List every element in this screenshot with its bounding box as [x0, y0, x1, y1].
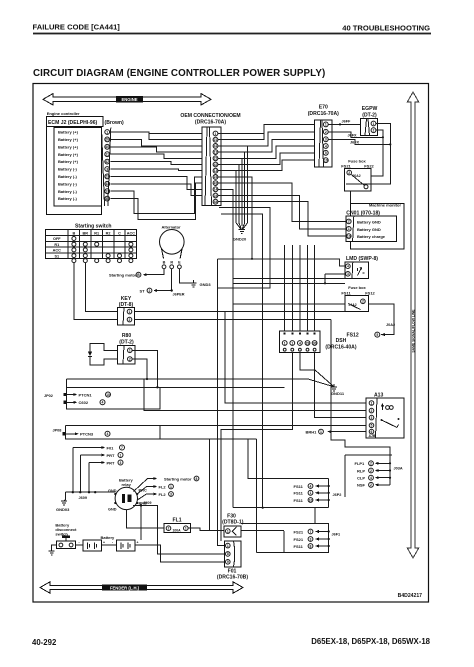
svg-text:FS21: FS21 — [341, 164, 351, 169]
svg-text:24: 24 — [214, 194, 218, 198]
svg-text:ENGINE: ENGINE — [121, 97, 137, 102]
wire chain to FS11/FS21 groups — [233, 508, 329, 524]
svg-text:2: 2 — [370, 469, 372, 473]
svg-text:relay: relay — [122, 482, 132, 487]
DSH feed verticals — [285, 245, 315, 331]
svg-text:8: 8 — [310, 544, 312, 548]
wire FL1 to F30 — [188, 528, 224, 531]
svg-text:FS11: FS11 — [294, 484, 304, 489]
svg-text:FS21: FS21 — [294, 529, 304, 534]
wire ECM pin2 to OEM — [111, 139, 203, 146]
wire ECM pin4 to OEM — [111, 154, 203, 158]
ground GND20 bundle wires — [218, 146, 247, 242]
svg-text:J6FX: J6FX — [348, 133, 358, 137]
wire switch to battery 1 — [75, 544, 83, 546]
svg-text:(DRC16-70A): (DRC16-70A) — [195, 120, 226, 126]
svg-text:13: 13 — [214, 169, 218, 173]
svg-text:2: 2 — [370, 462, 372, 466]
wire ECM pin1 to OEM — [111, 132, 203, 140]
svg-text:+: + — [137, 541, 139, 545]
svg-text:Battery (-): Battery (-) — [58, 189, 78, 194]
svg-text:Battery (+): Battery (+) — [58, 130, 79, 135]
wire OEM to E70 pin4 — [218, 146, 315, 158]
svg-text:2: 2 — [348, 220, 350, 224]
svg-text:PTCN3: PTCN3 — [80, 432, 94, 437]
svg-text:4: 4 — [107, 432, 109, 436]
svg-text:GND03: GND03 — [56, 507, 70, 512]
svg-text:22: 22 — [214, 157, 218, 161]
svg-text:PRT: PRT — [107, 453, 116, 458]
svg-text:23: 23 — [214, 175, 218, 179]
svg-text:C: C — [118, 231, 121, 235]
ground GND11 — [67, 353, 345, 396]
svg-text:GND11: GND11 — [331, 391, 345, 396]
wire ECM pin10 to OEM — [111, 183, 203, 220]
machine monitor box — [351, 203, 404, 249]
svg-text:J009: J009 — [143, 501, 151, 505]
svg-text:2: 2 — [348, 171, 350, 175]
svg-text:ACC: ACC — [127, 231, 135, 235]
ground GND20 — [239, 230, 245, 234]
svg-text:2: 2 — [362, 300, 364, 304]
svg-text:4: 4 — [310, 484, 312, 488]
wire ECM pin7 to OEM — [111, 176, 203, 189]
svg-text:J6PER: J6PER — [173, 292, 185, 296]
wire alternator B to starting motor (B) — [109, 269, 164, 278]
svg-text:8: 8 — [227, 552, 229, 556]
svg-text:ACC: ACC — [53, 249, 61, 253]
svg-text:1: 1 — [129, 349, 131, 353]
svg-text:3: 3 — [106, 167, 108, 171]
wire OEM to E70 pin2 — [218, 132, 315, 146]
svg-text:33: 33 — [105, 197, 109, 201]
svg-text:R: R — [170, 261, 173, 265]
svg-text:1: 1 — [170, 485, 172, 489]
svg-text:1: 1 — [129, 310, 131, 314]
svg-text:44: 44 — [214, 200, 218, 204]
svg-text:DSH: DSH — [336, 338, 347, 344]
svg-text:23: 23 — [105, 175, 109, 179]
wire relay to FL1 — [126, 510, 164, 529]
svg-text:F30: F30 — [227, 513, 236, 519]
connector KEY — [118, 296, 138, 325]
svg-text:41: 41 — [214, 144, 218, 148]
wire from switch-B node down to FLP1 bus — [331, 320, 390, 485]
E70 connector — [308, 105, 339, 168]
wire EGPW pin2 to fuse box — [371, 130, 383, 176]
fuse box FS11/FS12 — [341, 285, 375, 311]
svg-text:FLP1: FLP1 — [355, 461, 366, 466]
svg-text:E70: E70 — [319, 105, 328, 111]
wire E70 pin1 to EGPW pin1, node J6FF — [328, 120, 360, 126]
svg-text:JP02: JP02 — [44, 394, 53, 398]
wire ECM pin3 to OEM — [111, 147, 203, 152]
long wire down to F01 pin1 — [217, 259, 224, 546]
svg-text:OEM CONNECTION/OEM: OEM CONNECTION/OEM — [180, 113, 240, 119]
svg-text:J0A2: J0A2 — [386, 323, 395, 327]
svg-text:C602: C602 — [79, 400, 89, 405]
svg-text:2: 2 — [371, 409, 373, 413]
wires ECM to OEM — [111, 132, 203, 220]
svg-text:SAME SIGNAL/FLOW LINE: SAME SIGNAL/FLOW LINE — [412, 309, 416, 353]
svg-text:PRT: PRT — [107, 460, 116, 465]
svg-text:GND3: GND3 — [200, 282, 212, 287]
svg-text:FS12: FS12 — [365, 291, 375, 296]
svg-text:2: 2 — [129, 318, 131, 322]
svg-text:3: 3 — [120, 461, 122, 465]
svg-text:Alternator: Alternator — [162, 225, 182, 230]
harness arrow ENGINE — [43, 94, 211, 105]
svg-text:FS11: FS11 — [294, 498, 304, 503]
long wire from JP08 box to FS11 group riser — [160, 439, 257, 553]
svg-text:FS22: FS22 — [364, 164, 374, 169]
svg-text:FL1: FL1 — [172, 518, 181, 524]
svg-text:2: 2 — [168, 527, 170, 531]
svg-text:(DRC16-70B): (DRC16-70B) — [217, 575, 248, 581]
svg-text:9: 9 — [227, 560, 229, 564]
svg-text:AJB: AJB — [369, 434, 376, 438]
svg-text:40 TROUBLESHOOTING: 40 TROUBLESHOOTING — [342, 24, 430, 33]
connector JP08 group — [53, 425, 161, 439]
alternator — [160, 225, 185, 269]
svg-text:S1: S1 — [54, 254, 59, 258]
svg-text:21: 21 — [214, 138, 218, 142]
svg-text:GND: GND — [108, 489, 117, 493]
svg-text:14: 14 — [214, 188, 218, 192]
svg-text:EGPW: EGPW — [362, 106, 378, 112]
svg-text:42: 42 — [105, 160, 109, 164]
wire OEM to E70 pin1 — [218, 124, 315, 139]
svg-text:2: 2 — [325, 130, 327, 134]
svg-text:(DRC16-70A): (DRC16-70A) — [308, 111, 339, 117]
svg-text:PTCN1: PTCN1 — [79, 392, 93, 397]
svg-text:4: 4 — [102, 401, 104, 405]
svg-text:2: 2 — [370, 483, 372, 487]
wire OEM pin1 stub — [149, 133, 202, 135]
svg-text:GND: GND — [108, 508, 117, 512]
svg-text:CLP: CLP — [357, 476, 365, 481]
battery relay — [108, 478, 147, 512]
wire E70 pin2, node J6FX — [328, 132, 384, 139]
svg-text:B: B — [73, 231, 76, 235]
wire fuse box down to machine monitor — [350, 191, 352, 204]
svg-text:-: - — [79, 541, 80, 545]
svg-text:(DT-2): (DT-2) — [119, 339, 134, 345]
svg-text:FAILURE CODE [CA441]: FAILURE CODE [CA441] — [33, 23, 121, 32]
ECM connector strip pins — [102, 128, 105, 207]
svg-text:43: 43 — [105, 182, 109, 186]
svg-text:FL2: FL2 — [159, 484, 167, 489]
svg-text:20: 20 — [105, 138, 109, 142]
svg-text:4: 4 — [299, 341, 301, 345]
svg-text:1: 1 — [325, 123, 327, 127]
battery disconnect switch — [49, 523, 77, 555]
battery 2 — [101, 535, 139, 551]
battery 1 — [79, 540, 106, 551]
connector CN01 — [346, 211, 397, 242]
svg-text:42: 42 — [214, 163, 218, 167]
fusible link FL1 — [164, 518, 191, 533]
F01/PRT arrows — [73, 445, 125, 465]
svg-text:7: 7 — [121, 446, 123, 450]
svg-text:E: E — [178, 261, 181, 265]
wire alternator E to ground GND3 — [179, 269, 211, 287]
wire fuse FS12 to node J0A2 and FS12 pin5 arrow — [347, 304, 396, 339]
svg-text:13: 13 — [105, 190, 109, 194]
svg-text:FENDER (L.H.): FENDER (L.H.) — [110, 585, 140, 590]
svg-text:100A: 100A — [173, 529, 182, 533]
svg-text:FS11: FS11 — [341, 291, 351, 296]
wire ECM pin6 to OEM — [111, 169, 203, 171]
wire OEM to node — [218, 133, 264, 135]
svg-text:4: 4 — [347, 265, 349, 269]
wire switch B to KEY pin2 and on to node — [74, 263, 331, 320]
svg-text:1: 1 — [120, 453, 122, 457]
svg-text:11: 11 — [105, 153, 109, 157]
svg-text:Fuse box: Fuse box — [348, 285, 366, 290]
wire F30 right side to FS21 riser — [241, 530, 284, 532]
svg-text:Battery (+): Battery (+) — [58, 152, 79, 157]
svg-text:1: 1 — [215, 132, 217, 136]
connector LMD — [345, 256, 378, 279]
svg-text:5: 5 — [325, 151, 327, 155]
wire ECM pin5 to OEM — [111, 162, 203, 165]
svg-text:12: 12 — [214, 150, 218, 154]
svg-text:2: 2 — [129, 357, 131, 361]
svg-text:OFF: OFF — [53, 237, 61, 241]
svg-text:1: 1 — [185, 527, 187, 531]
svg-text:8: 8 — [196, 477, 198, 481]
wire R80 pin1 to JP02 box — [132, 350, 157, 387]
svg-text:F01: F01 — [107, 445, 115, 450]
svg-text:1: 1 — [227, 544, 229, 548]
svg-text:JP08: JP08 — [53, 428, 62, 432]
svg-text:FL2: FL2 — [159, 492, 167, 497]
FL2 / starting motor arrow group — [134, 476, 199, 500]
svg-text:B4D24217: B4D24217 — [398, 593, 423, 599]
wire battery1 to battery2 — [102, 544, 117, 546]
svg-text:1: 1 — [348, 227, 350, 231]
svg-text:2: 2 — [149, 289, 151, 293]
svg-text:CIRCUIT DIAGRAM (ENGINE CONTRO: CIRCUIT DIAGRAM (ENGINE CONTROLLER POWER… — [33, 68, 325, 79]
svg-text:FS21: FS21 — [294, 537, 304, 542]
FS21 arrow group — [241, 523, 340, 552]
OEM connection connector — [180, 113, 240, 206]
svg-text:3: 3 — [325, 138, 327, 142]
svg-text:1: 1 — [291, 341, 293, 345]
svg-text:LMD (SWP-8): LMD (SWP-8) — [346, 256, 378, 262]
svg-text:J6FX: J6FX — [350, 141, 360, 145]
FS11 arrow group — [248, 439, 341, 508]
connector JP02 group — [44, 387, 285, 409]
connector F01 — [217, 541, 248, 581]
svg-text:(Brown): (Brown) — [105, 120, 125, 126]
svg-text:3: 3 — [310, 537, 312, 541]
svg-text:1: 1 — [106, 130, 108, 134]
svg-text:1: 1 — [310, 491, 312, 495]
wire ECM pin8 to OEM — [111, 184, 203, 196]
svg-text:FS12: FS12 — [347, 333, 359, 339]
svg-text:1: 1 — [227, 529, 229, 533]
svg-text:7: 7 — [310, 530, 312, 534]
svg-text:Battery charge: Battery charge — [357, 234, 386, 239]
fuse box FS21/FS22 — [341, 159, 374, 191]
svg-text:RLP: RLP — [357, 468, 365, 473]
svg-text:Battery (-): Battery (-) — [58, 167, 78, 172]
wire OEM to E70 pin3 — [218, 139, 315, 152]
svg-text:10: 10 — [106, 393, 110, 397]
wire loop rectangle (machine boundary stub) — [217, 259, 344, 288]
svg-text:+: + — [103, 541, 105, 545]
svg-text:ECM J2 (DELPHI-96): ECM J2 (DELPHI-96) — [48, 120, 98, 126]
svg-text:D65EX-18, D65PX-18, D65WX-18: D65EX-18, D65PX-18, D65WX-18 — [311, 637, 430, 646]
relay A13 — [366, 393, 404, 438]
connector DSH — [280, 331, 357, 353]
svg-text:F01: F01 — [228, 568, 237, 574]
svg-text:J03A: J03A — [394, 466, 403, 470]
svg-text:Battery (+): Battery (+) — [58, 159, 79, 164]
svg-text:1: 1 — [320, 430, 322, 434]
svg-text:3: 3 — [170, 492, 172, 496]
svg-text:Battery (-): Battery (-) — [58, 181, 78, 186]
wire BRH1 from A13 pin6 — [306, 429, 367, 434]
connector F30 — [222, 513, 244, 537]
svg-text:FS11: FS11 — [294, 491, 304, 496]
wire relay GND bottom to F01 pin8 — [133, 506, 224, 554]
wire switch BR to KEY pin1 and on to fuse box FS11 — [85, 263, 345, 312]
wire battery2 + to F01 pin9 — [135, 545, 224, 562]
relay R80 with diode — [88, 333, 135, 365]
svg-text:BR: BR — [83, 231, 89, 235]
svg-text:29: 29 — [306, 341, 310, 345]
harness arrow FENDER (L.H.) — [40, 582, 243, 593]
engine controller ECM J2 — [47, 111, 125, 215]
svg-text:1: 1 — [284, 341, 286, 345]
svg-text:Engine controller: Engine controller — [47, 111, 80, 116]
svg-text:10: 10 — [324, 159, 328, 163]
mid horizontal wire to fuse box FS11 — [218, 189, 345, 507]
EGPW connector — [360, 106, 377, 136]
svg-text:4: 4 — [325, 144, 327, 148]
svg-text:Battery (+): Battery (+) — [58, 144, 79, 149]
svg-text:(DT8D-1): (DT8D-1) — [222, 519, 244, 525]
svg-text:Starting switch: Starting switch — [75, 224, 112, 230]
svg-text:R80: R80 — [122, 333, 132, 339]
svg-text:J609: J609 — [79, 496, 87, 500]
wire EGPW pin1 to fuse box — [346, 124, 390, 184]
svg-text:(DT-2): (DT-2) — [362, 112, 377, 118]
wire riser to F30 feed — [209, 439, 211, 531]
wires OEM down to CN01 — [218, 183, 347, 236]
svg-text:Battery (-): Battery (-) — [58, 196, 78, 201]
node J609 bus and ground GND03 — [56, 448, 115, 513]
svg-text:40: 40 — [105, 145, 109, 149]
svg-text:1: 1 — [371, 401, 373, 405]
svg-text:Starting motor: Starting motor — [164, 476, 192, 481]
svg-text:1: 1 — [373, 122, 375, 126]
svg-text:5: 5 — [371, 424, 373, 428]
wire OEM to E70 pin6 — [218, 160, 315, 171]
wires OEM down to LMD — [218, 177, 345, 285]
FLP1/RLP/CLP/NSF arrow group — [345, 455, 403, 497]
wire OEM bottom to long column x=270 — [219, 208, 270, 259]
svg-text:4: 4 — [370, 476, 372, 480]
svg-text:3: 3 — [347, 272, 349, 276]
svg-text:3: 3 — [371, 416, 373, 420]
svg-text:BRH1: BRH1 — [306, 429, 318, 434]
wire battery2 + riser, node J009 — [140, 506, 142, 541]
svg-text:Battery GND: Battery GND — [357, 219, 381, 224]
wire E70 pin3, node J6FX — [328, 139, 391, 145]
svg-text:40-292: 40-292 — [32, 638, 57, 647]
svg-text:ST: ST — [140, 288, 146, 293]
wires to A13 pins — [144, 312, 366, 426]
svg-text:R1: R1 — [54, 243, 59, 247]
diagram frame — [33, 84, 429, 603]
svg-text:30: 30 — [313, 341, 317, 345]
svg-text:10: 10 — [347, 234, 351, 238]
svg-text:R2: R2 — [106, 231, 111, 235]
svg-text:10: 10 — [309, 498, 313, 502]
svg-text:J6P2: J6P2 — [333, 493, 342, 497]
svg-text:R1: R1 — [94, 231, 99, 235]
wire DSH pin2 to F01 riser — [221, 353, 292, 541]
wire ECM pin9 to OEM — [111, 177, 203, 213]
svg-text:Battery: Battery — [101, 535, 116, 540]
wire OEM to E70 pin5 — [218, 153, 315, 165]
svg-text:GND20: GND20 — [233, 237, 247, 242]
svg-text:NSF: NSF — [357, 483, 366, 488]
svg-text:(DRC16-40A): (DRC16-40A) — [325, 345, 356, 351]
svg-text:B: B — [163, 261, 166, 265]
diode D — [90, 343, 118, 365]
svg-text:43: 43 — [214, 181, 218, 185]
svg-text:J6F1: J6F1 — [332, 532, 341, 536]
harness arrow vertical (same signal/flow line) — [407, 92, 418, 558]
wire alternator R to ST(2), node J6PER — [140, 269, 185, 297]
svg-text:-: - — [112, 541, 113, 545]
svg-text:2: 2 — [373, 129, 375, 133]
svg-text:J6FF: J6FF — [342, 120, 352, 124]
starting switch table — [45, 224, 136, 263]
svg-text:Battery GND: Battery GND — [357, 227, 381, 232]
svg-text:Battery (-): Battery (-) — [58, 174, 78, 179]
svg-text:Starting motor: Starting motor — [109, 272, 137, 277]
wire OEM bottom to long column x=262.7 — [221, 214, 263, 508]
svg-text:Battery (+): Battery (+) — [58, 137, 79, 142]
svg-text:FS11: FS11 — [294, 544, 304, 549]
svg-text:5: 5 — [376, 333, 378, 337]
wire R80 pin2 to GND11 line — [132, 359, 147, 379]
